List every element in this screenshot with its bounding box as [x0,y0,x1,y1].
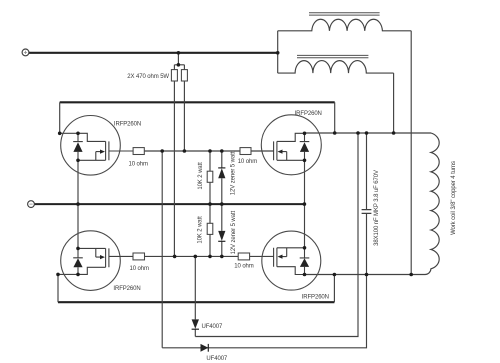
arrow Q1 [100,150,105,154]
inductor L1 winding [278,19,412,31]
wire: right edge bottom [333,275,335,303]
resistor R1 470 ohm [171,70,177,81]
resistor R2 470 ohm [181,70,187,81]
capacitor C1 plates [362,210,372,214]
diode D-Q3 triangle [300,142,309,152]
wire: upper gate bus [144,150,240,152]
wire: mid rail from - terminal [34,203,304,205]
resistor bodies [133,70,251,260]
thick bus wires [29,53,335,302]
zener ZD1 bar [218,167,225,169]
transistor Q1 symbol [78,133,133,160]
svg-text:10 ohm: 10 ohm [238,159,258,165]
wire: L2 drop to tank top [393,73,395,133]
wire: bridge bottom edge [58,301,334,303]
resistor R4 10K [207,223,213,234]
zener ZD2 triangle [218,231,225,241]
diode D-Q1 [73,133,83,160]
svg-text:IRFP260N: IRFP260N [302,295,329,301]
wire: upper zener leads [221,151,223,204]
transistor Q3 circle [261,115,321,175]
arrow Q2 [100,255,105,259]
arrow Q4 [278,255,283,259]
resistor RG4 10 ohm [238,253,249,260]
svg-text:UF4007: UF4007 [202,324,224,330]
svg-text:10 ohm: 10 ohm [234,264,254,270]
wire: outer bottom link to tank bottom [162,275,366,348]
wire: upper 10K leads [209,151,211,204]
wire: BL source link [58,274,78,302]
svg-text:10 ohm: 10 ohm [129,266,149,272]
wire: 470 ohm split [174,65,184,70]
resistor RG2 10 ohm [133,253,145,260]
wire: lower gate bus [145,255,239,257]
diode D-Q3 [300,133,310,160]
svg-text:IRFP260N: IRFP260N [113,286,140,292]
svg-text:12V zener 5 watt: 12V zener 5 watt [231,151,237,195]
wire: TL drain link [60,132,78,134]
svg-text:2X 470 ohm 5W: 2X 470 ohm 5W [127,74,169,80]
svg-text:10K 2 watt: 10K 2 watt [198,162,204,190]
wire: transformer feed vertical [277,31,279,73]
transistor Q3 symbol [274,133,305,160]
wire: bridge top edge [60,101,335,103]
diode D-Q1 triangle [73,142,82,152]
svg-text:10K 2 watt: 10K 2 watt [197,216,203,244]
wire: lower zener leads [221,204,223,256]
wire: TR gate lead [251,150,274,152]
zener and diode bars [192,168,226,352]
terminal P1 [22,49,29,56]
svg-text:Work coil 3/8" copper 4 turns: Work coil 3/8" copper 4 turns [451,161,457,235]
svg-text:10 ohm: 10 ohm [128,161,148,167]
diode D-Q2 [73,248,83,274]
wire: lower 10K leads [209,204,211,256]
wire: capacitor branch [366,133,368,275]
diode D2 UF4007 triangle [201,344,209,352]
wire: 470 ohm R1 lead down to lower gate wire [173,81,175,256]
resistor R3 10K [207,171,213,182]
diode D-Q4 triangle [300,258,309,267]
wire: right edge top [334,102,336,133]
wire: tank top rail and work coil [305,133,440,275]
wire: tank bottom rail [305,274,412,276]
resistor RG1 10 ohm [133,148,144,155]
transistor Q4 symbol [274,248,305,275]
diode D1 bar [192,328,199,330]
inductor L1 core [297,13,380,58]
transistor Q4 circle [262,231,321,290]
inductor L2 core [297,55,368,57]
wire: 470 ohm R2 lead down to upper gate wire [183,81,185,151]
wire: TL source to BL drain [77,160,79,248]
diode D-Q2 triangle [73,258,82,267]
transistor Q2 symbol [78,248,133,274]
transistor Q2 circle [61,231,121,291]
svg-text:IRFP260N: IRFP260N [295,111,322,117]
wire: left edge top [59,102,61,133]
wire: resistor junction drop [177,53,179,65]
inductor L2 winding [278,61,394,74]
svg-text:IRFP260N: IRFP260N [114,122,141,128]
svg-text:UF4007: UF4007 [206,356,228,362]
svg-text:12V zener 5 watt: 12V zener 5 watt [231,211,237,255]
diode D-Q4 [300,248,310,275]
diode D1 UF4007 triangle [192,319,199,328]
wire: cross-coupling B from upper gate wire [161,151,163,348]
wire: BR gate lead [250,255,274,257]
wire: L1 drop to tank bottom [410,31,412,275]
zener ZD1 triangle [218,168,225,178]
wire: top supply rail from + terminal [29,52,278,54]
zener ZD2 bar [218,240,225,242]
filled arrows and diode triangles [73,142,309,352]
wire: D1 branch vertical [194,256,196,336]
arrow Q3 [278,150,283,154]
svg-text:38X100 nF MKP 3.8 uF 670V: 38X100 nF MKP 3.8 uF 670V [374,170,380,246]
MOSFET circles [61,115,322,291]
transistor Q1 circle [61,116,121,176]
terminal P2 [28,201,35,208]
wire: inner bottom link to tank top [195,133,358,337]
wire: TR source to BR drain [304,160,306,248]
resistor RG3 10 ohm [240,148,251,155]
diode D2 bar [207,344,209,352]
